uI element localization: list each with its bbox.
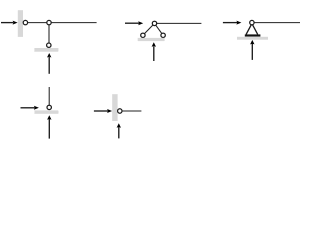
force arrow F1 (support 1, horizontal)	[1, 21, 18, 25]
link left leg (support 2)	[143, 23, 155, 35]
pin joint (support 5)	[118, 109, 122, 113]
ground hatch (support 4)	[35, 110, 59, 113]
beam (support 1, horizontal bar)	[25, 22, 96, 24]
pin joint C (support 1)	[47, 43, 51, 47]
pin joint A (support 1)	[23, 20, 27, 24]
pin joint (support 4)	[47, 105, 51, 109]
pin joint right (support 2)	[161, 33, 165, 37]
ground hatch (support 1)	[34, 48, 58, 52]
force arrow F4 (support 4, horizontal)	[21, 106, 39, 110]
reaction arrow N5 (support 5, vertical)	[117, 123, 121, 138]
reaction arrow N1 (support 1, vertical)	[47, 53, 51, 74]
ground hatch (support 3)	[237, 37, 268, 40]
link right leg (support 2)	[155, 23, 164, 35]
beam (support 5, horizontal bar)	[120, 110, 142, 112]
fixed support triangle (support 3)	[246, 24, 258, 35]
ground hatch (support 2)	[138, 38, 165, 41]
link bar (support 1, vertical)	[48, 23, 50, 46]
wall hatch (support 5)	[112, 94, 117, 121]
beam (support 3, horizontal bar)	[252, 22, 300, 24]
force arrow F2 (support 2, horizontal)	[125, 21, 143, 25]
pin joint left (support 2)	[141, 33, 145, 37]
pin joint (support 3)	[250, 20, 254, 24]
reaction arrow N3 (support 3, vertical)	[250, 40, 254, 60]
reaction arrow N2 (support 2, vertical)	[152, 42, 156, 61]
link bar (support 4, vertical)	[48, 87, 50, 107]
fixed support base line (support 3)	[245, 34, 261, 36]
force arrow F3 (support 3, horizontal)	[223, 21, 242, 25]
pin joint B (support 1)	[47, 20, 51, 24]
pin joint top (support 2)	[152, 21, 156, 25]
wall hatch (support 1)	[18, 10, 23, 37]
beam (support 2, horizontal bar)	[155, 22, 202, 24]
reaction arrow N4 (support 4, vertical)	[47, 115, 51, 138]
force arrow F5 (support 5, horizontal)	[94, 109, 112, 113]
